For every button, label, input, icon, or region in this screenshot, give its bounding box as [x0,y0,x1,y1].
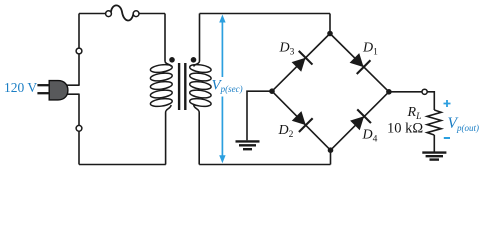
minus sign [444,137,450,139]
diode D4 [348,109,371,132]
plug prong top [37,84,49,86]
node left [269,88,275,94]
wire diamond top-right side [330,34,389,92]
transformer phasing dot right [191,57,197,63]
wire left node to ground [247,91,272,140]
transformer primary coil [150,61,173,113]
svg-text:D1: D1 [362,41,378,58]
wire primary transformer bottom stub [165,113,167,165]
wire diamond top-left side [272,34,330,92]
diode D3 [290,51,313,74]
wire diamond bottom-right side [331,92,389,150]
wire secondary top rail [200,14,331,62]
ground right (output) [422,153,446,160]
fuse terminal circle right [133,11,139,17]
svg-text:D2: D2 [278,123,294,140]
node right [386,89,392,95]
svg-text:Vp(sec): Vp(sec) [212,78,243,95]
wire right node to output terminal [389,92,434,110]
diode D1 [348,51,371,74]
node top [327,31,333,37]
plug wires to outlet [66,85,80,94]
node bottom [328,147,334,153]
wire primary right side to transformer top [164,14,166,62]
svg-text:D4: D4 [362,128,378,145]
svg-text:10 kΩ: 10 kΩ [387,120,423,136]
wire diamond bottom-left side [272,91,331,150]
wire bridge bottom stub [330,150,332,165]
transformer phasing dot left [169,57,175,63]
transformer core bars [179,63,185,110]
transformer secondary coil [189,61,211,113]
wire secondary bottom rail [199,113,330,165]
wire bridge top stub [329,14,331,34]
fuse terminal circle left [106,11,112,17]
svg-text:120 V: 120 V [4,80,37,95]
output terminal circle [422,89,427,94]
plug body [49,81,68,100]
diode D2 [290,109,313,132]
Vp(sec) arrow (double-headed, blue) [219,15,225,164]
plug prong bottom [37,92,49,94]
wire primary loop left/top/bottom [79,14,166,165]
ground left (bridge) [236,141,260,149]
wire output corner down to resistor and ground [433,135,435,152]
svg-text:Vp(out): Vp(out) [448,115,479,133]
plus sign [444,100,451,107]
outlet terminal circle bottom [76,125,82,131]
svg-text:D3: D3 [279,41,295,58]
resistor RL zigzag [427,110,441,135]
fuse F (S-curve) [111,5,134,20]
outlet terminal circle top [76,48,82,54]
